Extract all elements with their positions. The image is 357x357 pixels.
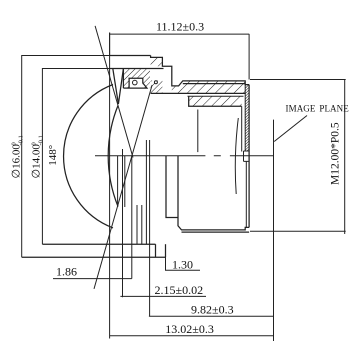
M12 ext top — [250, 79, 346, 81]
o-ring circle — [133, 80, 138, 85]
svg-text:0: 0 — [10, 142, 17, 145]
wall bottom edge / channel top — [151, 92, 246, 94]
bottom silhouette d14 edge — [42, 243, 155, 245]
dome lens outer arc — [64, 85, 113, 228]
text d14.00 0/-0.1 rotated — [30, 135, 44, 178]
d14 bracket — [42, 69, 110, 245]
svg-text:∅14.00: ∅14.00 — [30, 144, 42, 179]
svg-text:148°: 148° — [47, 145, 59, 166]
text M12.00*P0.5 rotated — [330, 122, 342, 185]
hatch thread band — [183, 81, 245, 94]
hatch inner band — [189, 96, 242, 106]
front cell notch (o-ring groove) — [129, 78, 147, 88]
svg-text:0: 0 — [30, 142, 37, 145]
FOV ray B — [94, 85, 152, 289]
dome glass clamp edge V right — [118, 69, 123, 105]
bottom silhouette rear barrel wall start — [166, 156, 249, 230]
dim line 1.86 — [53, 278, 132, 280]
rear wall strip left edge — [244, 85, 246, 152]
dim line 9.82 — [149, 315, 274, 317]
retainer bottom edge / d14 line — [110, 68, 164, 70]
hatch rear wall strip (dense) — [245, 85, 249, 152]
top profile: retainer step to thread — [151, 56, 250, 86]
image plane line — [273, 120, 275, 341]
rear face — [248, 85, 250, 228]
inner tube rear face — [197, 110, 199, 153]
front cell bottom edge — [123, 87, 129, 89]
bottom silhouette d16 edge (continues as 1.30 dim line) — [22, 256, 166, 258]
glass edge pair below axis mid — [137, 205, 142, 244]
svg-text:13.02±0.3: 13.02±0.3 — [165, 322, 214, 336]
bottom silhouette front cell corner — [155, 244, 157, 257]
element edge pair at flange — [145, 140, 147, 244]
hatch step block — [151, 57, 163, 66]
top edge d16 — [110, 55, 151, 57]
ext line rear top — [248, 34, 250, 80]
FOV ray A — [95, 26, 133, 158]
svg-text:IMAGE PLANE: IMAGE PLANE — [286, 104, 350, 114]
ext line 1.86 right / 1.30 left — [131, 156, 133, 279]
svg-text:11.12±0.3: 11.12±0.3 — [156, 20, 204, 34]
bottom silhouette mid step corner — [165, 244, 167, 257]
dome lens inner arc — [108, 106, 118, 207]
svg-text:1.30: 1.30 — [172, 258, 193, 272]
svg-text:-0.1: -0.1 — [17, 135, 24, 145]
svg-text:∅16.00: ∅16.00 — [10, 144, 22, 179]
text d16.00 0/-0.1 rotated — [10, 135, 24, 178]
centerline optical axis — [95, 155, 273, 157]
rear aperture box at axis — [244, 151, 250, 161]
svg-text:9.82±0.3: 9.82±0.3 — [191, 303, 234, 317]
dim line 13.02 — [110, 335, 274, 337]
svg-text:1.86: 1.86 — [56, 264, 77, 278]
thread root line top — [183, 83, 245, 85]
rear lens surface arc — [235, 118, 238, 194]
ext line front top — [109, 33, 111, 56]
1.30 jogged leader under text — [166, 257, 201, 270]
hatch front cell left block — [123, 69, 129, 89]
hatch front cell top strip — [129, 69, 143, 79]
d16 bracket — [22, 56, 110, 258]
dim line 11.12 — [110, 33, 249, 35]
front cell left edge — [122, 69, 124, 89]
small circle detail (retainer thread) — [154, 81, 157, 84]
image plane leader — [274, 116, 307, 142]
text 148deg rotated — [47, 145, 59, 166]
hatch front cell right block — [143, 69, 150, 89]
dome glass clamp edge V left — [113, 69, 119, 105]
ext line 9.82 left — [149, 140, 151, 316]
thread relief channel bottom edge — [188, 95, 244, 97]
ext line 2.15 left — [122, 149, 124, 297]
hatch neck block 2 — [172, 86, 183, 94]
svg-text:M12.00*P0.5: M12.00*P0.5 — [330, 122, 342, 185]
glass edges below axis near dome — [118, 156, 125, 207]
rear face inner line below axis — [245, 161, 247, 227]
M12 ext bottom — [250, 230, 346, 232]
inner band step + bottom edge — [189, 96, 242, 106]
rear bore wall inner face — [241, 106, 243, 151]
front face + extension full vertical — [109, 33, 111, 339]
bottom thread root line — [182, 231, 250, 233]
M12 dim line right — [344, 80, 346, 235]
svg-text:-0.1: -0.1 — [37, 135, 44, 145]
dim line 2.15 — [120, 295, 206, 297]
svg-text:2.15±0.02: 2.15±0.02 — [155, 283, 204, 297]
